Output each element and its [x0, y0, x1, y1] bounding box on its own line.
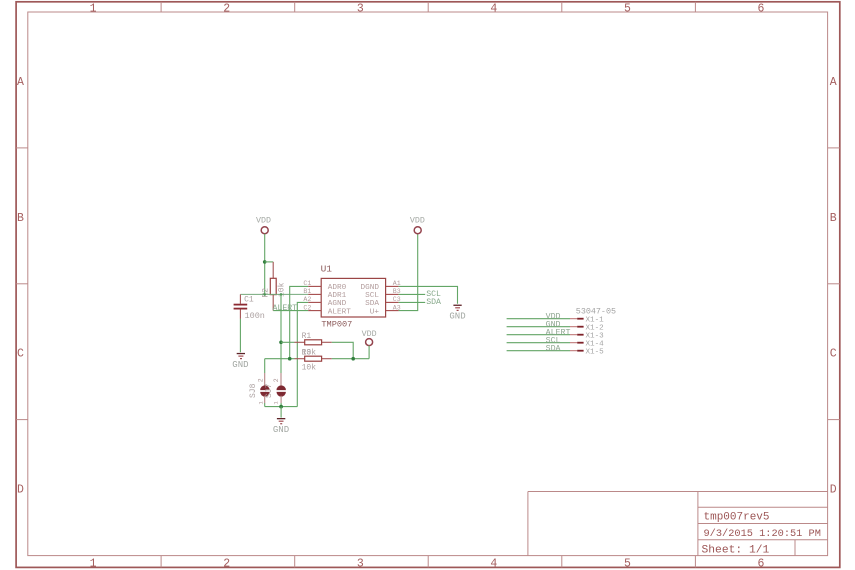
solder jumper SJ7 bottom pin: [280, 396, 282, 403]
svg-text:R1: R1: [302, 332, 312, 341]
connector pin wire X1-5: [570, 350, 577, 352]
svg-text:SCL: SCL: [365, 292, 379, 300]
svg-text:ALERT: ALERT: [273, 304, 298, 313]
connector pad X1-3: [577, 334, 583, 336]
junction R1/R3 right: [351, 357, 355, 361]
connector pin wire X1-2: [570, 326, 577, 328]
connector wire SDA: [507, 350, 570, 352]
connector pad X1-4: [577, 342, 583, 344]
svg-text:5: 5: [624, 3, 631, 16]
resistor R1 right pin: [322, 341, 332, 343]
svg-text:TMP007: TMP007: [321, 320, 352, 330]
wire SJ7 to GND rail: [280, 403, 282, 407]
junction ADR0 / R3: [288, 357, 292, 361]
resistor R3 left pin: [295, 358, 305, 360]
svg-text:tmp007rev5: tmp007rev5: [704, 512, 770, 524]
svg-text:2: 2: [223, 3, 230, 16]
supply VDD (left) circle: [261, 227, 268, 234]
svg-text:100n: 100n: [245, 311, 265, 321]
wire R3 right to VDD: [332, 358, 369, 360]
svg-text:B: B: [830, 212, 837, 225]
row letters right: [830, 76, 837, 497]
column numbers bottom: [90, 557, 765, 570]
connector wire GND: [507, 326, 570, 328]
pin stub ALERT (C2): [308, 310, 321, 312]
capacitor C1 top pin: [239, 294, 241, 303]
svg-text:C1: C1: [303, 280, 311, 287]
svg-text:U1: U1: [321, 263, 333, 274]
wire U+ to VDD: [399, 234, 418, 311]
resistor R2 body (vertical): [270, 278, 276, 294]
resistor R3 body: [305, 356, 322, 361]
svg-text:B1: B1: [303, 288, 311, 295]
wire DGND to ground: [399, 286, 458, 303]
svg-text:X1-2: X1-2: [586, 325, 605, 333]
svg-text:10k: 10k: [302, 364, 317, 373]
svg-text:A2: A2: [303, 296, 311, 303]
wire R1 left: [281, 341, 295, 343]
connector pin wire X1-4: [570, 342, 577, 344]
pin stub AGND (A2): [308, 301, 321, 303]
wire VDD rail to ADR1 (cap row): [240, 293, 308, 295]
capacitor C1 plates: [234, 304, 248, 306]
pin stub ADR1 (B1): [308, 293, 321, 295]
svg-text:B: B: [17, 212, 24, 225]
svg-text:VDD: VDD: [410, 217, 425, 226]
wire SCL: [399, 293, 426, 295]
svg-text:GND: GND: [273, 425, 289, 435]
resistor R2 bottom pin to ALERT row: [272, 295, 274, 311]
solder jumper SJ8 pads: [260, 385, 269, 396]
svg-text:SDA: SDA: [365, 300, 379, 308]
svg-text:2: 2: [273, 378, 280, 382]
supply VDD (right) circle: [414, 227, 421, 234]
wire GND rail to ground: [280, 407, 282, 418]
svg-text:2: 2: [258, 378, 265, 382]
svg-text:U+: U+: [370, 308, 380, 316]
resistor R3 right pin: [322, 358, 332, 360]
svg-text:SJ8: SJ8: [249, 383, 258, 398]
junction VDD rail at x=281: [280, 293, 283, 296]
svg-text:4: 4: [490, 557, 497, 570]
svg-text:ADR0: ADR0: [328, 284, 347, 292]
pin stub SDA (C3): [386, 301, 399, 303]
svg-text:9/3/2015 1:20:51 PM: 9/3/2015 1:20:51 PM: [704, 528, 821, 540]
svg-text:X1-5: X1-5: [586, 349, 605, 357]
ground under C1: [232, 353, 248, 370]
svg-text:X1-4: X1-4: [586, 341, 605, 349]
junction GND rail: [279, 405, 283, 409]
svg-text:D: D: [17, 484, 24, 497]
svg-text:4: 4: [490, 3, 497, 16]
resistor R2 top pin: [272, 262, 274, 278]
solder jumper SJ8 top pin: [264, 373, 266, 386]
svg-text:Sheet: 1/1: Sheet: 1/1: [702, 545, 770, 557]
svg-text:SDA: SDA: [546, 344, 561, 353]
svg-text:SJ7: SJ7: [265, 383, 274, 398]
wire row2 left (ADR0 net): [265, 358, 295, 360]
svg-text:1: 1: [90, 557, 97, 570]
svg-text:AGND: AGND: [328, 300, 347, 308]
svg-text:C1: C1: [244, 295, 254, 304]
svg-text:D: D: [830, 484, 837, 497]
wire ADR0 row: [290, 286, 309, 358]
solder jumper SJ7 pads: [277, 385, 286, 396]
svg-text:3: 3: [357, 3, 364, 16]
svg-text:3: 3: [357, 557, 364, 570]
frame column ticks top: [161, 2, 695, 12]
svg-text:VDD: VDD: [256, 217, 271, 226]
resistor R1 body: [305, 340, 322, 345]
svg-text:ADR1: ADR1: [328, 292, 347, 300]
svg-text:53047-05: 53047-05: [576, 307, 616, 317]
svg-text:ALERT: ALERT: [328, 308, 351, 316]
pin stub DGND (A1): [386, 285, 399, 287]
wire VDD middle down: [368, 346, 370, 359]
svg-text:C: C: [830, 348, 837, 361]
connector wire ALERT: [507, 334, 570, 336]
svg-text:GND: GND: [232, 360, 248, 370]
connector pin wire X1-3: [570, 334, 577, 336]
connector pad X1-2: [577, 326, 583, 328]
wire C1 to GND: [239, 319, 241, 352]
connector pad X1-5: [577, 350, 583, 352]
connector pad X1-1: [577, 318, 583, 320]
IC U1 box: [321, 278, 385, 317]
connector wire SCL: [507, 342, 570, 344]
connector wire VDD: [507, 318, 570, 320]
svg-text:SDA: SDA: [426, 298, 441, 307]
junction VDD / R2 top: [263, 260, 267, 264]
wire junction to R2 top pin: [265, 261, 274, 263]
svg-text:GND: GND: [449, 311, 465, 321]
svg-text:A: A: [17, 76, 24, 89]
wire VDD down from circle: [264, 234, 266, 295]
connector pin wire X1-1: [570, 318, 577, 320]
title block: [528, 492, 828, 556]
pin stub U+ (A3): [386, 310, 399, 312]
svg-text:R2: R2: [261, 288, 270, 298]
svg-text:6: 6: [758, 557, 765, 570]
wire ALERT row: [273, 310, 308, 312]
GND rail under jumpers: [265, 406, 298, 408]
svg-text:A: A: [830, 76, 837, 89]
supply VDD (middle) circle: [366, 339, 373, 346]
svg-text:X1-3: X1-3: [586, 333, 605, 341]
svg-text:2: 2: [223, 557, 230, 570]
svg-text:DGND: DGND: [361, 284, 380, 292]
svg-text:VDD: VDD: [362, 330, 377, 339]
wire ADR1 drop (vertical to R1 and SJ7): [280, 294, 282, 373]
column numbers top: [90, 3, 765, 16]
svg-text:1: 1: [90, 3, 97, 16]
svg-text:5: 5: [624, 557, 631, 570]
svg-text:6: 6: [758, 3, 765, 16]
pin stub ADR0 (C1): [308, 285, 321, 287]
frame column ticks bottom: [161, 556, 695, 568]
capacitor C1 bottom pin: [239, 310, 241, 319]
wire SDA: [399, 301, 426, 303]
svg-text:C: C: [17, 348, 24, 361]
junction VDD rail at x=265: [263, 293, 266, 296]
row letters left: [17, 76, 24, 497]
ground right of IC: [449, 305, 465, 322]
solder jumper SJ8 top wire: [264, 359, 266, 373]
solder jumper SJ7 top pin: [280, 373, 282, 386]
svg-text:X1-1: X1-1: [586, 317, 605, 325]
frame row ticks left: [16, 148, 28, 420]
resistor R1 left pin: [295, 341, 305, 343]
svg-text:C2: C2: [303, 304, 311, 311]
wire AGND row: [297, 302, 308, 406]
frame row ticks right: [828, 148, 840, 420]
wire SJ8 to GND rail: [264, 403, 266, 407]
junction R1 left: [279, 341, 283, 345]
wire R1 right to VDD row: [332, 342, 353, 358]
pin stub SCL (B3): [386, 293, 399, 295]
solder jumper SJ8 bottom pin: [264, 396, 266, 403]
ground under jumpers: [273, 418, 289, 435]
